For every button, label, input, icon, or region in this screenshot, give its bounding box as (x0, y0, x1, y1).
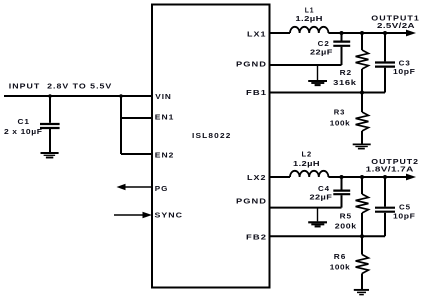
svg-text:OUTPUT2: OUTPUT2 (371, 159, 419, 166)
svg-text:R6: R6 (334, 254, 347, 261)
svg-text:PGND: PGND (236, 62, 267, 69)
svg-text:C1: C1 (18, 119, 31, 126)
wire R5 top lead (361, 177, 363, 194)
svg-text:EN2: EN2 (155, 153, 175, 160)
resistor R6 value label (330, 254, 351, 272)
wire C5 top lead (384, 177, 386, 207)
svg-text:10pF: 10pF (393, 214, 416, 221)
wire LX1 to inductor (269, 32, 290, 34)
svg-text:R5: R5 (340, 213, 353, 220)
wire R6 top lead (361, 236, 363, 254)
node junction C3 tap (383, 31, 387, 35)
wire C2 bottom lead (341, 47, 343, 65)
svg-text:2.5V/2A: 2.5V/2A (377, 23, 415, 30)
inductor L2 (290, 171, 328, 177)
node junction R3 tap (360, 91, 364, 95)
svg-text:10pF: 10pF (393, 69, 416, 76)
capacitor C5 value label (393, 205, 416, 221)
ground input GND (41, 153, 59, 158)
resistor R3 value label (330, 109, 351, 127)
svg-text:C4: C4 (318, 186, 330, 193)
wire EN1 stub (121, 117, 152, 119)
wire R2 bottom lead (361, 69, 363, 93)
wire PG output with arrow (117, 184, 153, 190)
svg-text:LX2: LX2 (247, 175, 267, 182)
node junction C2 tap (340, 31, 344, 35)
capacitor C4 (333, 191, 350, 195)
wire C3 bottom lead (384, 68, 386, 93)
ground PGND2 (308, 208, 327, 227)
wire LX2 output rail (328, 176, 408, 178)
inductor L1 (290, 27, 328, 33)
svg-text:1.8V/1.7A: 1.8V/1.7A (366, 167, 414, 174)
resistor R6 (356, 255, 369, 274)
node junction R5 tap (360, 175, 364, 179)
svg-text:ISL8022: ISL8022 (192, 133, 232, 140)
svg-text:22µF: 22µF (310, 49, 333, 56)
svg-text:1.2µH: 1.2µH (295, 16, 323, 23)
svg-text:316k: 316k (333, 80, 357, 87)
svg-text:100k: 100k (330, 120, 351, 127)
svg-text:FB1: FB1 (246, 90, 267, 97)
resistor R5 value label (335, 213, 357, 230)
svg-text:INPUT 2.8V TO 5.5V: INPUT 2.8V TO 5.5V (9, 84, 113, 91)
svg-text:C2: C2 (318, 41, 330, 48)
svg-text:R2: R2 (340, 70, 353, 77)
ground R6 GND (354, 290, 369, 295)
svg-text:PGND: PGND (236, 198, 267, 205)
node OUTPUT2 label (366, 159, 419, 174)
wire LX1 output rail (328, 32, 408, 34)
ground R3 GND (353, 144, 371, 148)
wire FB1 (269, 92, 385, 94)
inductor L1 value label (295, 8, 323, 24)
wire C5 bottom lead (384, 213, 386, 236)
capacitor C4 value label (310, 186, 333, 202)
svg-text:2 x 10µF: 2 x 10µF (4, 129, 43, 136)
wire input rail to VIN (4, 95, 152, 97)
svg-text:EN1: EN1 (155, 115, 175, 122)
wire PGND2 (269, 207, 342, 209)
node junction EN branch (119, 94, 123, 98)
wire C1 top lead (49, 96, 51, 123)
op-amp U1 ISL8022 IC body (152, 5, 270, 288)
resistor R3 (356, 112, 369, 131)
svg-text:22µF: 22µF (310, 195, 333, 202)
svg-text:L2: L2 (302, 152, 313, 159)
svg-text:C5: C5 (399, 205, 411, 212)
wire C2 top lead (341, 33, 343, 41)
svg-text:C3: C3 (399, 61, 411, 68)
svg-text:OUTPUT1: OUTPUT1 (371, 16, 420, 23)
resistor R2 (356, 50, 369, 69)
capacitor C3 value label (393, 61, 416, 76)
svg-text:VIN: VIN (155, 94, 172, 101)
node OUTPUT1 arrow (406, 30, 416, 37)
resistor R5 (356, 194, 369, 213)
node junction C5 tap (383, 175, 387, 179)
svg-text:SYNC: SYNC (155, 213, 184, 220)
wire R3 bottom lead (361, 131, 363, 144)
wire R6 bottom lead (361, 274, 363, 290)
node OUTPUT2 arrow (406, 174, 416, 181)
svg-text:LX1: LX1 (247, 32, 267, 39)
svg-text:R3: R3 (334, 109, 346, 116)
capacitor C2 value label (310, 41, 333, 57)
node junction C1 tap (48, 94, 52, 98)
capacitor C2 (333, 42, 350, 46)
svg-text:1.2µH: 1.2µH (293, 161, 320, 168)
svg-text:L1: L1 (305, 8, 315, 15)
svg-text:FB2: FB2 (246, 234, 267, 241)
node junction R6 tap (360, 234, 364, 238)
capacitor C1 value label (4, 119, 43, 136)
capacitor C3 (375, 63, 395, 67)
wire R5 bottom lead (361, 213, 363, 236)
wire C4 top lead (341, 177, 343, 190)
svg-text:200k: 200k (335, 224, 357, 231)
wire C3 top lead (384, 33, 386, 61)
wire SYNC input with arrow (114, 212, 152, 218)
capacitor C1 (40, 124, 60, 128)
wire LX2 to inductor (269, 176, 290, 178)
node junction R2 tap (360, 31, 364, 35)
wire PGND1 (269, 64, 342, 66)
node junction C4 tap (340, 175, 344, 179)
wire C4 bottom lead (341, 195, 343, 207)
wire EN branch vertical (120, 96, 122, 154)
ground PGND1 (308, 65, 327, 85)
wire R2 top lead (361, 33, 363, 50)
wire EN2 stub (121, 153, 152, 155)
node OUTPUT1 label (371, 16, 420, 31)
svg-text:100k: 100k (330, 265, 351, 272)
wire C1 bottom lead (49, 129, 51, 152)
resistor R2 value label (333, 70, 357, 87)
inductor L2 value label (293, 152, 320, 168)
svg-text:PG: PG (155, 186, 169, 193)
wire R3 top lead (361, 93, 363, 113)
wire FB2 (269, 235, 385, 237)
capacitor C5 (375, 208, 395, 212)
